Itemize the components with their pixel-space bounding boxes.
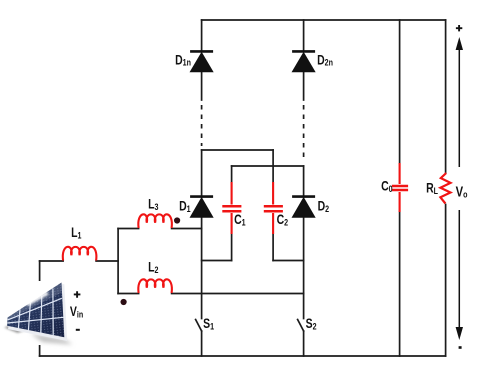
svg-text:L2: L2 — [148, 259, 159, 275]
svg-text:D1n: D1n — [175, 52, 191, 68]
svg-text:Vin: Vin — [70, 304, 83, 320]
svg-text:L1: L1 — [71, 225, 82, 241]
svg-text:D2: D2 — [318, 198, 330, 214]
svg-text:S2: S2 — [306, 316, 317, 332]
svg-text:C1: C1 — [234, 212, 246, 228]
svg-text:Vo: Vo — [456, 183, 468, 200]
svg-text:RL: RL — [426, 180, 438, 196]
svg-text:D2n: D2n — [317, 52, 333, 68]
svg-text:S1: S1 — [203, 316, 214, 332]
svg-text:C0: C0 — [381, 178, 393, 194]
svg-text:L3: L3 — [148, 196, 159, 212]
svg-text:C2: C2 — [277, 212, 289, 228]
svg-text:D1: D1 — [179, 198, 191, 214]
